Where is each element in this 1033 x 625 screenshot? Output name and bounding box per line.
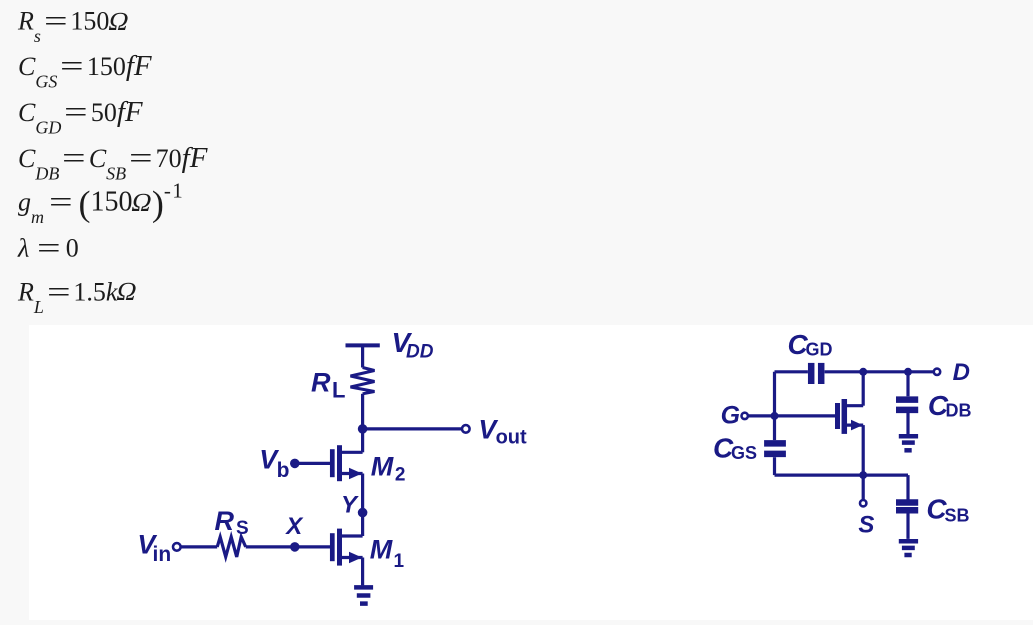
svg-text:G: G: [721, 402, 740, 430]
svg-text:DD: DD: [406, 342, 434, 363]
svg-text:S: S: [236, 518, 249, 539]
svg-text:R: R: [215, 506, 235, 536]
svg-text:D: D: [953, 359, 970, 386]
svg-text:2: 2: [395, 465, 406, 486]
svg-text:GS: GS: [731, 443, 757, 463]
svg-text:GD: GD: [806, 339, 833, 359]
svg-text:in: in: [153, 543, 172, 566]
svg-text:Y: Y: [341, 492, 359, 519]
svg-text:DB: DB: [946, 400, 972, 420]
svg-text:R: R: [311, 368, 331, 398]
svg-text:L: L: [332, 377, 345, 402]
svg-text:M: M: [370, 535, 393, 565]
svg-text:1: 1: [394, 551, 405, 572]
svg-text:X: X: [284, 513, 304, 540]
svg-text:out: out: [496, 427, 527, 449]
svg-text:SB: SB: [945, 506, 970, 526]
svg-text:S: S: [858, 512, 874, 539]
svg-text:M: M: [371, 452, 394, 482]
svg-text:b: b: [277, 459, 290, 482]
